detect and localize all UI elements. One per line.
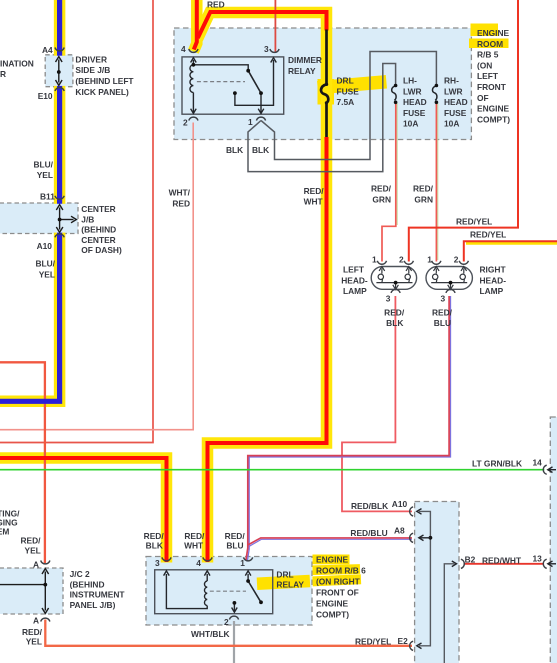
DRL pin2 arm + arrowhead	[233, 603, 235, 611]
dimmer switch blade	[248, 71, 261, 93]
svg-text:RED/: RED/	[384, 307, 405, 317]
chevron dimmer pin4	[189, 49, 198, 52]
svg-text:ROOM: ROOM	[477, 39, 503, 49]
svg-text:LWR: LWR	[403, 86, 422, 96]
DRL switch blade	[248, 581, 261, 602]
black core below DRL fuse	[325, 103, 328, 138]
highlight ENGINE ROOM R/B 6	[313, 555, 350, 565]
svg-text:RED/YEL: RED/YEL	[470, 229, 506, 239]
chevron dimmer pin1	[256, 117, 265, 120]
svg-text:2: 2	[399, 254, 404, 264]
svg-text:RED/: RED/	[371, 184, 392, 194]
svg-text:LEFT: LEFT	[343, 265, 365, 275]
svg-text:BLK: BLK	[386, 318, 403, 328]
chevron left lamp pin1	[377, 261, 386, 264]
svg-text:RED/: RED/	[432, 307, 453, 317]
wire RED/YEL (left edge to J/C2)	[0, 362, 45, 563]
svg-text:YEL: YEL	[26, 637, 42, 647]
wire RED/BLK core (left edge to DRL relay pin3)	[0, 458, 167, 562]
wire RED core branch to DRL fuse corner	[198, 12, 327, 38]
yellow patch over blue core in center J/B	[53, 204, 66, 233]
highlight DRL RELAY	[257, 575, 311, 590]
svg-text:A4: A4	[42, 45, 53, 55]
svg-text:RED/WHT: RED/WHT	[482, 555, 522, 565]
svg-text:RED/YEL: RED/YEL	[456, 217, 492, 227]
svg-text:SIDE J/B: SIDE J/B	[75, 65, 110, 75]
svg-text:7.5A: 7.5A	[337, 97, 355, 107]
fuse F-DRL 7.5A symbol	[321, 84, 328, 103]
svg-text:3: 3	[386, 294, 391, 304]
svg-text:2: 2	[183, 118, 188, 128]
svg-text:R/B 5: R/B 5	[477, 50, 499, 60]
black core above DRL fuse	[325, 30, 328, 85]
svg-text:RED: RED	[172, 198, 190, 208]
dimmer contact to pin3	[235, 60, 274, 105]
svg-text:RED/YEL: RED/YEL	[355, 637, 391, 647]
wire RED/YEL (right headlamp pin2 to right edge)	[464, 241, 557, 261]
wire RED feed (vertical into dimmer pin 4) yellow band	[193, 0, 196, 52]
svg-text:INATION: INATION	[0, 58, 34, 68]
connector 14 arrow	[549, 469, 556, 471]
svg-text:LAMP: LAMP	[343, 286, 367, 296]
highlight ENGINE ROOM (R/B 5)	[471, 24, 499, 37]
svg-text:(BEHIND: (BEHIND	[70, 579, 105, 589]
svg-text:BLK: BLK	[252, 145, 269, 155]
A8 arrow	[419, 537, 430, 539]
svg-text:3: 3	[264, 44, 269, 54]
chevron J/C2 top	[41, 561, 50, 564]
dimmer pin2 arm + arrowhead	[192, 93, 194, 113]
B2 arrow	[452, 561, 457, 567]
svg-text:YEL: YEL	[37, 170, 53, 180]
svg-text:OF DASH): OF DASH)	[81, 245, 122, 255]
svg-text:YEL: YEL	[39, 269, 55, 279]
chevron B2 R/B6	[461, 559, 464, 568]
chevron right lamp pin1	[432, 261, 441, 264]
dimmer pin1 arm + arrowhead	[260, 93, 262, 112]
svg-text:WHT/BLK: WHT/BLK	[191, 629, 230, 639]
dimmer switch feed	[193, 65, 248, 70]
svg-text:1: 1	[372, 254, 377, 264]
dimmer pin4 arm + arrowhead	[192, 60, 194, 65]
R/B6 internal B2 feed	[444, 564, 454, 663]
DRL pin3 arm + arrowhead	[166, 574, 207, 609]
svg-text:A10: A10	[392, 499, 408, 509]
svg-text:DRL: DRL	[337, 76, 354, 86]
svg-text:EM: EM	[0, 526, 9, 536]
svg-text:J/C 2: J/C 2	[70, 569, 90, 579]
svg-text:INSTRUMENT: INSTRUMENT	[70, 590, 126, 600]
wire RED/BLK traced yellow band	[0, 458, 167, 563]
wire RED/BLU blue trace	[247, 296, 450, 562]
svg-text:FUSE: FUSE	[444, 108, 467, 118]
engine room R/B 6 box	[415, 502, 459, 663]
DRL linkage dashed	[210, 590, 246, 592]
svg-text:A: A	[33, 615, 39, 625]
DRL pin4 arm + arrowhead	[206, 574, 208, 581]
dimmer linkage dashed	[197, 81, 245, 83]
svg-text:LH-: LH-	[403, 76, 417, 86]
wire RED core (into dimmer pin4)	[194, 0, 197, 50]
svg-text:ENGINE: ENGINE	[477, 28, 510, 38]
svg-text:RED/BLU: RED/BLU	[350, 528, 387, 538]
E2 arrow	[417, 643, 422, 649]
left lamp filament 1	[381, 269, 383, 274]
chevron connector 13	[543, 559, 546, 568]
wire RED/WHT (B2 to connector 13)	[464, 563, 544, 565]
engine room R/B 5 box	[174, 28, 471, 140]
svg-text:LEFT: LEFT	[477, 71, 499, 81]
chevron left lamp pin2	[404, 261, 413, 264]
right lamp common bus	[431, 282, 467, 284]
svg-text:2: 2	[454, 254, 459, 264]
R/B6 internal bus A10-A8-E2	[419, 511, 430, 645]
svg-text:PANEL J/B): PANEL J/B)	[70, 600, 116, 610]
chevron connector 14	[543, 465, 546, 474]
svg-text:COMPT): COMPT)	[477, 114, 510, 124]
svg-text:2: 2	[224, 617, 229, 627]
yellow patch over blue core in driver J/B	[53, 56, 66, 86]
chevron A10 (center J/B)	[55, 234, 64, 237]
chevron dimmer pin2	[189, 117, 198, 120]
svg-text:ENGINE: ENGINE	[316, 598, 349, 608]
wire LT GRN/BLK (full width green)	[0, 469, 544, 471]
svg-text:YEL: YEL	[25, 545, 41, 555]
svg-text:FRONT OF: FRONT OF	[316, 587, 359, 597]
chevron A8 R/B6	[410, 533, 413, 542]
A10 arrow	[417, 509, 422, 515]
svg-text:FUSE: FUSE	[403, 108, 426, 118]
svg-text:DIMMER: DIMMER	[288, 55, 322, 65]
svg-text:B2: B2	[465, 555, 476, 565]
junction dot A8	[429, 536, 433, 540]
svg-text:RED/: RED/	[225, 531, 246, 541]
svg-text:14: 14	[533, 458, 543, 468]
wire red (dimmer pin3 up)	[274, 0, 276, 52]
chevron E2 R/B6	[410, 641, 413, 650]
dimmer relay U1 inner box	[182, 57, 284, 114]
svg-text:(BEHIND: (BEHIND	[81, 225, 116, 235]
svg-text:RED/: RED/	[22, 627, 43, 637]
svg-text:1: 1	[427, 254, 432, 264]
svg-text:ENGINE: ENGINE	[316, 554, 349, 564]
svg-text:WHT/: WHT/	[169, 188, 191, 198]
DRL relay box	[146, 557, 312, 626]
svg-text:RED/: RED/	[413, 184, 434, 194]
wire RED/BLK (left headlamp pin3 to A10)	[342, 296, 412, 511]
wire WHT/RED (dimmer pin2 to left edge)	[0, 123, 193, 430]
svg-text:A8: A8	[394, 526, 405, 536]
chevron A10 R/B6	[410, 507, 413, 516]
svg-text:LAMP: LAMP	[480, 286, 504, 296]
wire RED/GRN (LH fuse to left headlamp pin1) green trace	[396, 103, 398, 225]
svg-text:A: A	[33, 559, 39, 569]
wire RED/GRN (RH fuse to right headlamp pin1) green trace	[437, 103, 439, 260]
svg-text:FUSE: FUSE	[337, 86, 360, 96]
svg-text:GRN: GRN	[414, 194, 433, 204]
svg-text:3: 3	[155, 558, 160, 568]
svg-text:4: 4	[181, 44, 186, 54]
svg-text:E10: E10	[38, 91, 53, 101]
left lamp common bus	[376, 282, 412, 284]
svg-text:RELAY: RELAY	[288, 66, 316, 76]
wire RED branch / DRL fuse / RED-WHT run yellow band	[198, 13, 327, 563]
svg-text:4: 4	[196, 558, 201, 568]
svg-text:(ON RIGHT: (ON RIGHT	[316, 576, 361, 586]
svg-text:10A: 10A	[403, 119, 418, 129]
wire BLU/YEL yellow band	[0, 0, 60, 401]
svg-text:(BEHIND LEFT: (BEHIND LEFT	[75, 76, 134, 86]
wire BLK (dimmer pin1 to LH-LWR fuse)	[248, 64, 396, 172]
svg-text:RIGHT: RIGHT	[480, 265, 507, 275]
svg-text:1: 1	[240, 558, 245, 568]
svg-text:LWR: LWR	[444, 86, 463, 96]
svg-text:J/B: J/B	[81, 214, 94, 224]
svg-text:BLU: BLU	[434, 318, 451, 328]
chevron J/C2 bottom	[41, 618, 50, 621]
svg-text:RED: RED	[207, 0, 225, 10]
svg-text:CENTER: CENTER	[81, 204, 115, 214]
svg-text:HEAD-: HEAD-	[480, 275, 507, 285]
DRL coil L2	[204, 581, 207, 606]
right-edge box	[550, 417, 557, 663]
svg-text:LT GRN/BLK: LT GRN/BLK	[472, 459, 522, 469]
svg-text:13: 13	[533, 553, 543, 563]
chevron DRL pin1	[244, 557, 253, 560]
chevron E10	[55, 88, 64, 91]
svg-text:RELAY: RELAY	[276, 580, 304, 590]
svg-text:BLK: BLK	[146, 540, 163, 550]
dimmer contact dots	[246, 69, 250, 73]
wire BLU/YEL core	[0, 0, 60, 401]
highlight DRL FUSE	[317, 75, 387, 94]
chevron DRL pin2	[229, 616, 238, 619]
svg-text:ROOM R/B 6: ROOM R/B 6	[316, 565, 366, 575]
svg-text:BLU/: BLU/	[35, 259, 55, 269]
svg-text:10A: 10A	[444, 119, 459, 129]
wire WHT/BLK (DRL relay pin2 down)	[233, 621, 235, 663]
driver side J/B box	[45, 55, 73, 87]
svg-text:RED/BLK: RED/BLK	[351, 501, 388, 511]
chevron right lamp pin2	[459, 261, 468, 264]
svg-text:KICK PANEL): KICK PANEL)	[75, 87, 129, 97]
DRL contact dots	[246, 579, 250, 583]
chevron left lamp pin3	[391, 289, 400, 292]
DRL pin1 arm	[247, 574, 249, 581]
right lamp filament 1	[435, 269, 437, 274]
right lamp pin3 arm	[450, 283, 452, 289]
wire RED/GRN (RH fuse to right headlamp pin1)	[435, 103, 437, 262]
wire RED/WHT core (DRL fuse down to DRL relay pin4)	[208, 137, 327, 562]
highlight on RED/YEL wire (right)	[466, 241, 557, 245]
svg-text:WHT: WHT	[304, 197, 324, 207]
svg-text:BLK: BLK	[226, 145, 243, 155]
svg-text:RH-: RH-	[444, 76, 459, 86]
left lamp pin3 arm	[395, 283, 397, 289]
svg-text:1: 1	[248, 117, 253, 127]
svg-text:RED/: RED/	[304, 186, 325, 196]
left lamp filament 2	[408, 269, 410, 274]
wire RED/BLU (right headlamp pin3 to DRL relay pin1)	[246, 296, 449, 561]
svg-text:HEAD-: HEAD-	[341, 275, 368, 285]
wire red (left, from top to left edge)	[0, 0, 153, 443]
svg-text:RED/: RED/	[20, 536, 41, 546]
chevron DRL pin4	[203, 557, 212, 560]
chevron A4	[55, 48, 64, 51]
svg-text:RED/: RED/	[184, 531, 205, 541]
right lamp filament 2	[463, 269, 465, 274]
chevron DRL pin3	[162, 557, 171, 560]
svg-text:R: R	[0, 69, 6, 79]
wire BLK (dimmer pin1 to RH-LWR fuse)	[261, 52, 436, 160]
svg-text:CENTER: CENTER	[81, 235, 115, 245]
DRL relay U2 inner box	[155, 570, 273, 614]
svg-text:BLU: BLU	[226, 540, 243, 550]
svg-text:HEAD: HEAD	[444, 97, 468, 107]
wire RED/GRN (LH fuse to left headlamp pin1)	[382, 103, 396, 262]
center J/B box	[0, 203, 78, 234]
svg-text:FRONT: FRONT	[477, 82, 507, 92]
wire RED/YEL (left headlamp pin2 up right to top)	[409, 0, 518, 262]
svg-text:E2: E2	[398, 636, 409, 646]
chevron dimmer pin3	[270, 49, 279, 52]
svg-text:DRL: DRL	[276, 569, 293, 579]
svg-text:COMPT): COMPT)	[316, 609, 349, 619]
svg-text:WHT: WHT	[184, 540, 204, 550]
chevron right lamp pin3	[446, 289, 455, 292]
svg-text:DRIVER: DRIVER	[75, 54, 107, 64]
wire RED/YEL (J/C2 to E2)	[45, 620, 412, 646]
svg-text:ENGINE: ENGINE	[477, 104, 510, 114]
J/C 2 box	[0, 568, 63, 614]
connector 13 arrow	[549, 563, 556, 565]
dimmer coil L1	[190, 65, 193, 93]
svg-text:(ON: (ON	[477, 60, 492, 70]
wire RED/BLU branch to A8	[248, 538, 412, 545]
svg-text:GRN: GRN	[372, 194, 391, 204]
svg-text:BLU/: BLU/	[33, 159, 53, 169]
svg-text:B11: B11	[40, 192, 55, 202]
wire RED/BLU branch to A8 blue trace	[249, 539, 412, 546]
svg-text:HEAD: HEAD	[403, 97, 427, 107]
svg-text:A10: A10	[37, 241, 53, 251]
svg-text:RED/: RED/	[144, 531, 165, 541]
chevron B11	[55, 196, 64, 199]
svg-text:3: 3	[441, 294, 446, 304]
svg-text:OF: OF	[477, 93, 489, 103]
